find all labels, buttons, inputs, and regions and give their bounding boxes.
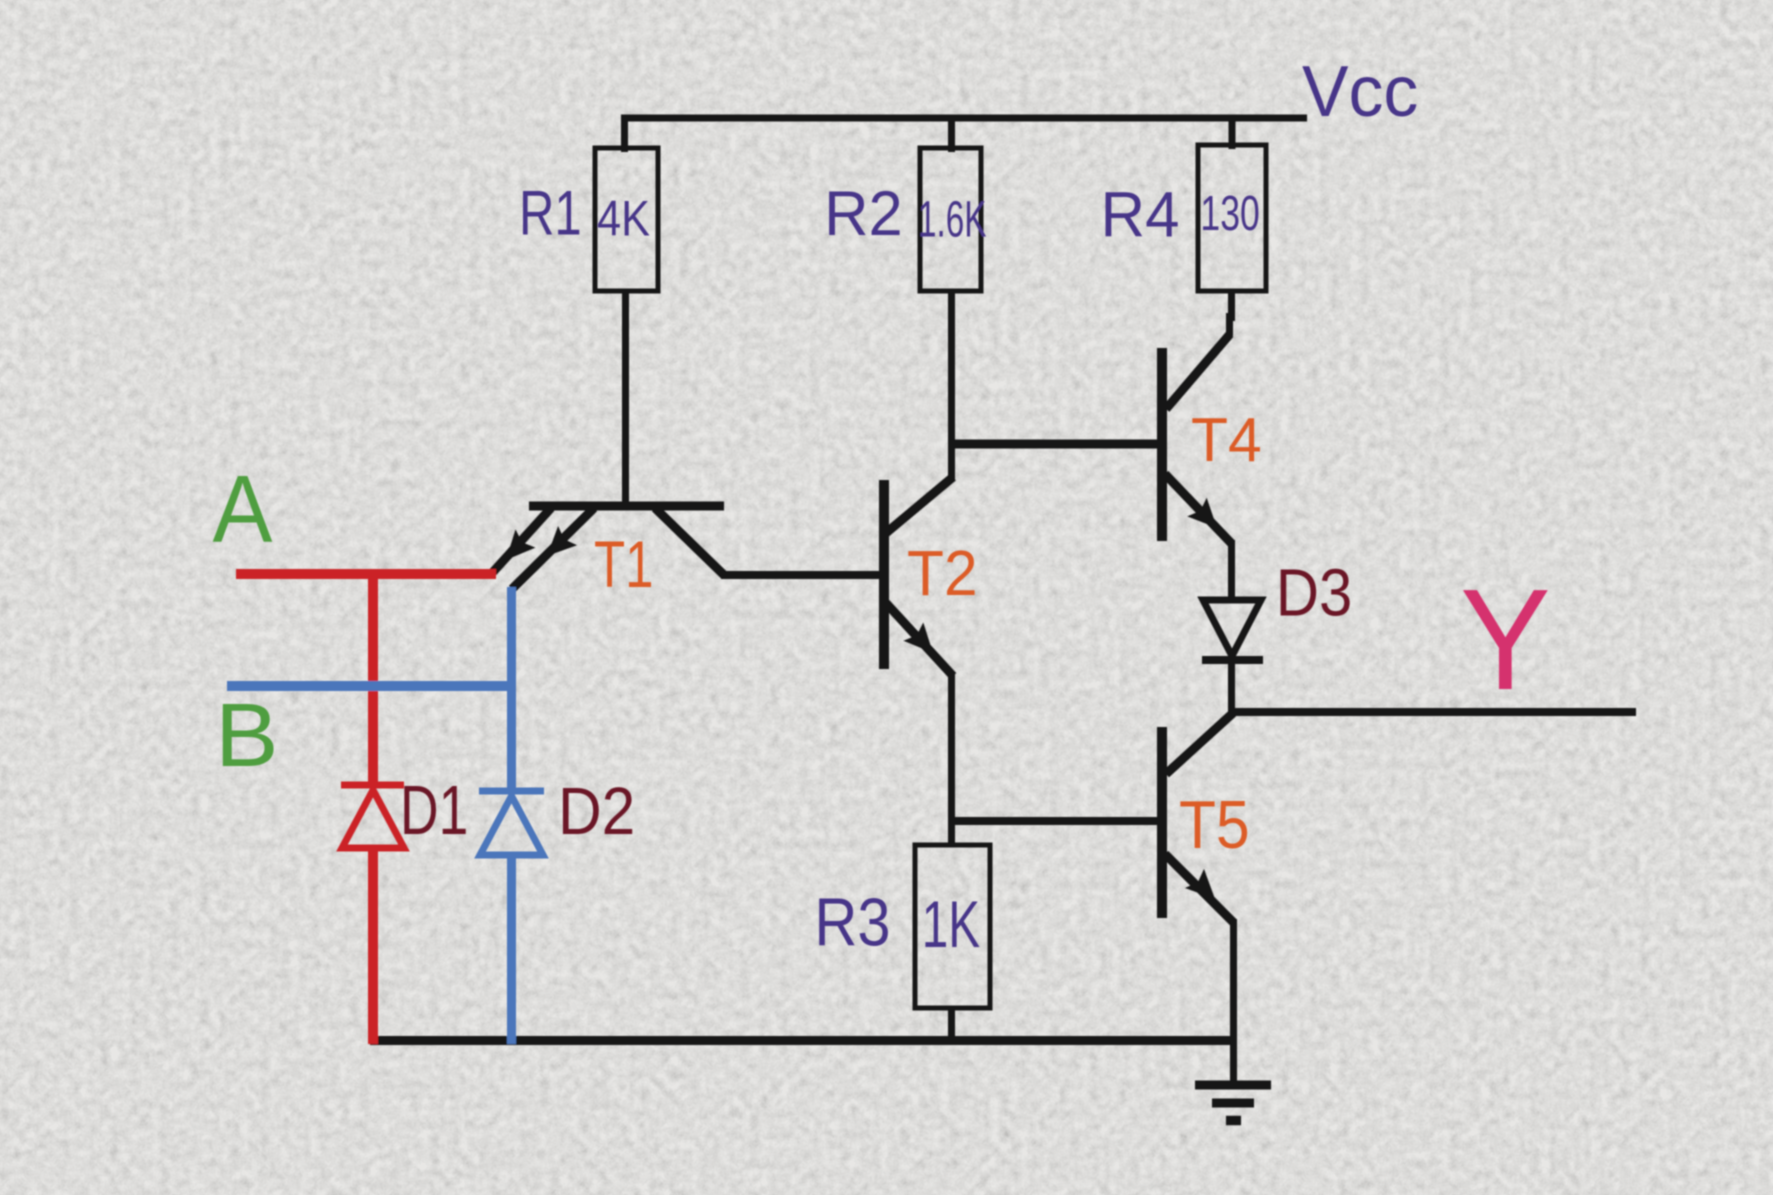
svg-text:D3: D3 [1276,555,1353,630]
svg-text:R1: R1 [519,179,582,249]
svg-text:R4: R4 [1101,179,1180,251]
svg-text:1.6K: 1.6K [918,191,987,248]
svg-text:1K: 1K [922,888,980,961]
svg-text:D2: D2 [558,774,635,849]
svg-text:A: A [213,457,273,563]
svg-text:R3: R3 [814,884,890,960]
svg-text:T2: T2 [907,537,978,609]
svg-text:Vcc: Vcc [1302,51,1418,132]
svg-text:D1: D1 [400,771,468,849]
svg-text:T5: T5 [1179,788,1250,863]
svg-text:Y: Y [1460,560,1551,720]
svg-text:130: 130 [1200,187,1259,241]
svg-text:B: B [215,685,279,785]
svg-text:4K: 4K [597,190,650,247]
svg-text:T4: T4 [1191,405,1262,475]
svg-text:R2: R2 [824,179,903,249]
svg-text:T1: T1 [594,528,654,601]
